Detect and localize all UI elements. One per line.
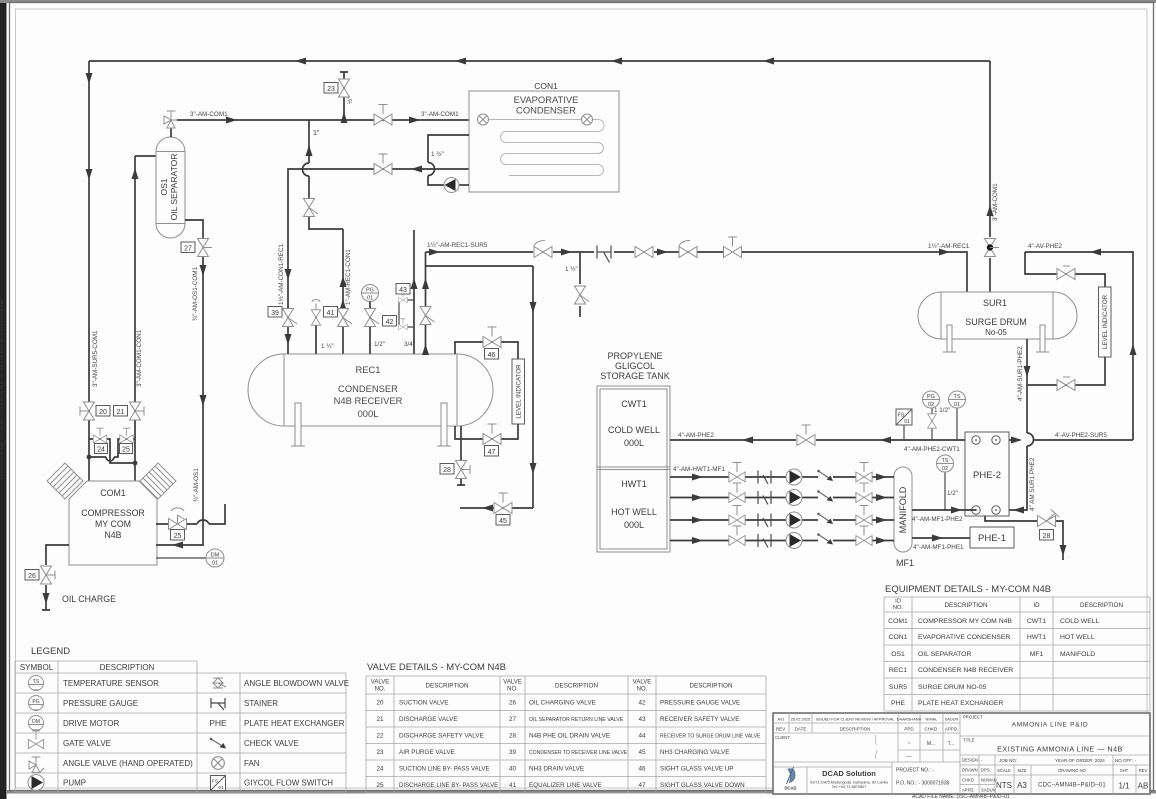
svg-text:No-05: No-05 bbox=[985, 328, 1007, 337]
svg-text:HOT WELL: HOT WELL bbox=[1060, 634, 1095, 641]
svg-text:STAINER: STAINER bbox=[244, 699, 278, 708]
wire: 4"-AM-SUR1-PHE2 drop x=1027 bbox=[1009, 339, 1034, 514]
svg-text:COMPRESSOR MY COM N4B: COMPRESSOR MY COM N4B bbox=[918, 618, 1012, 625]
compressor muffler left bbox=[47, 463, 83, 499]
svg-text:PROJECT NO.: -: PROJECT NO.: - bbox=[896, 768, 934, 774]
svg-text:44: 44 bbox=[638, 733, 646, 740]
svg-text:MF1: MF1 bbox=[896, 558, 914, 568]
svg-text:20: 20 bbox=[99, 409, 107, 416]
svg-text:24: 24 bbox=[97, 447, 105, 454]
condenser coil serpentine bbox=[489, 120, 604, 176]
svg-text:AIR PURGE VALVE: AIR PURGE VALVE bbox=[399, 749, 455, 756]
junction dot line24 bbox=[87, 455, 92, 460]
svg-text:N4B PHE OIL DRAIN VALVE: N4B PHE OIL DRAIN VALVE bbox=[529, 733, 610, 740]
svg-text:4"-AM-PHE2: 4"-AM-PHE2 bbox=[678, 432, 714, 439]
wire: OS1 discharge to CON1 y=120 bbox=[177, 117, 469, 124]
compressor muffler right bbox=[140, 463, 176, 499]
svg-text:1 ½": 1 ½" bbox=[321, 342, 334, 350]
svg-text:EVAPORATIVE: EVAPORATIVE bbox=[514, 94, 579, 105]
svg-text:LEGEND: LEGEND bbox=[31, 646, 70, 657]
svg-text:SCALE: SCALE bbox=[997, 768, 1011, 773]
svg-text:01: 01 bbox=[212, 561, 218, 567]
svg-text:AB: AB bbox=[1138, 782, 1149, 791]
svg-text:3"-AM-COM1: 3"-AM-COM1 bbox=[421, 111, 459, 118]
wire: 4"-AM-MF1-PHE2 y=510 bbox=[912, 507, 976, 514]
svg-text:NO.: NO. bbox=[893, 605, 904, 611]
OS1 oil separator vessel bbox=[156, 137, 185, 238]
valve 26 oil charge bbox=[41, 545, 70, 610]
wire: SUR1 sight loop lower bbox=[1027, 357, 1105, 385]
wire: 1.5" condenser loop left bbox=[428, 135, 469, 185]
svg-text:21: 21 bbox=[117, 409, 125, 416]
wire: 4"-AM-MF1-PHE1 y=538 bbox=[912, 535, 970, 542]
svg-text:DESIGN: DESIGN bbox=[962, 758, 978, 763]
svg-text:SURGE DRUM: SURGE DRUM bbox=[965, 317, 1027, 327]
level indicator REC1 bbox=[512, 359, 525, 424]
legend symbol DM bbox=[29, 716, 44, 731]
svg-text:41: 41 bbox=[509, 782, 517, 789]
check valve 2 on SUR5 line bbox=[679, 240, 697, 257]
valve on x=343 nozzle bbox=[338, 309, 353, 327]
wire: OS1 left nozzle to riser bbox=[135, 155, 156, 157]
pump 3 bbox=[786, 512, 802, 528]
svg-text:1½"-AM-REC1: 1½"-AM-REC1 bbox=[928, 242, 970, 250]
wire: pump line 1 y=477 bbox=[670, 474, 894, 481]
check valve pump line 2 bbox=[817, 490, 833, 501]
svg-text:PHE: PHE bbox=[891, 700, 905, 707]
svg-text:PROPYLENE: PROPYLENE bbox=[607, 351, 662, 361]
svg-text:OIL SEPARATOR: OIL SEPARATOR bbox=[918, 651, 971, 658]
svg-text:TITLE: TITLE bbox=[963, 738, 975, 743]
svg-text:OIL SEPARATOR RETURN LINE VALV: OIL SEPARATOR RETURN LINE VALVE bbox=[529, 717, 624, 723]
svg-text:4"-AM-MF1-PHE1: 4"-AM-MF1-PHE1 bbox=[913, 544, 964, 551]
gate valve pump line 4 bbox=[729, 526, 745, 545]
svg-text:REV.: REV. bbox=[776, 727, 786, 732]
numbox 26 bbox=[25, 570, 39, 581]
svg-text:SUCTION LINE BY- PASS VALVE: SUCTION LINE BY- PASS VALVE bbox=[399, 767, 489, 773]
svg-text:DCAD: DCAD bbox=[784, 786, 796, 791]
svg-text:25: 25 bbox=[376, 782, 384, 789]
svg-text:PRESSURE GAUGE VALVE: PRESSURE GAUGE VALVE bbox=[660, 700, 740, 707]
svg-text:91/71/1/A/5,Mudungoda, Gampaha: 91/71/1/A/5,Mudungoda, Gampaha, Sri Lank… bbox=[810, 781, 888, 785]
svg-text:40: 40 bbox=[509, 766, 517, 773]
svg-text:1"-AM-REC1-CON1: 1"-AM-REC1-CON1 bbox=[345, 249, 352, 305]
valve 23 air purge bbox=[339, 72, 350, 123]
svg-text:N4B RECEIVER: N4B RECEIVER bbox=[334, 395, 403, 406]
svg-text:39: 39 bbox=[509, 749, 517, 756]
wire: 1"-AM-REC1-CON1 riser x=343 bbox=[340, 229, 347, 354]
svg-text:HWT1: HWT1 bbox=[1027, 634, 1046, 641]
legend symbol angle blowdown bbox=[213, 678, 226, 688]
CON1 evaporative condenser box bbox=[469, 91, 619, 192]
PG-02 gauge with angle valve bbox=[923, 391, 940, 440]
hand valve on y=169 line bbox=[374, 154, 392, 175]
svg-text:SIZE: SIZE bbox=[1017, 768, 1027, 773]
svg-text:P.O. NO.: - 3000071938: P.O. NO.: - 3000071938 bbox=[896, 781, 949, 787]
svg-text:NH3 DRAIN VALVE: NH3 DRAIN VALVE bbox=[529, 766, 584, 773]
svg-text:DRAWN: DRAWN bbox=[962, 768, 978, 773]
svg-text:EQUALIZER LINE VALVE: EQUALIZER LINE VALVE bbox=[529, 782, 602, 789]
hand valve pump line 4 bbox=[856, 526, 872, 545]
svg-text:TS: TS bbox=[33, 679, 40, 685]
svg-text:COM1: COM1 bbox=[100, 488, 126, 498]
svg-text:PLATE HEAT EXCHANGER: PLATE HEAT EXCHANGER bbox=[918, 700, 1003, 707]
legend table grid bbox=[15, 661, 346, 792]
svg-text:46: 46 bbox=[488, 352, 496, 359]
svg-text:43: 43 bbox=[638, 716, 646, 723]
svg-text:3/4": 3/4" bbox=[404, 341, 415, 348]
svg-text:ISSUED FOR CLIENT REVIEW /: ISSUED FOR CLIENT REVIEW / APPROVAL bbox=[816, 717, 896, 722]
wire: top main suction header y=61 bbox=[89, 58, 990, 65]
svg-text:MANIFOLD: MANIFOLD bbox=[898, 486, 908, 533]
svg-text:DESCRIPTION: DESCRIPTION bbox=[1080, 602, 1123, 609]
svg-text:RECEIVER SAFETY VALVE: RECEIVER SAFETY VALVE bbox=[660, 716, 739, 723]
numbox 23 bbox=[324, 83, 338, 94]
svg-text:DISCHARGE LINE BY- PASS VALVE: DISCHARGE LINE BY- PASS VALVE bbox=[399, 783, 498, 789]
svg-text:—: — bbox=[34, 707, 39, 713]
check valve pump line 4 bbox=[817, 533, 833, 544]
right: bottom grid bbox=[960, 755, 1150, 794]
valve 28 PHE oil drain bbox=[985, 510, 1067, 561]
svg-text:CON1: CON1 bbox=[534, 81, 558, 91]
svg-text:DESCRIPTION: DESCRIPTION bbox=[840, 727, 871, 732]
wire: pump line 4 y=540.5 bbox=[670, 537, 894, 544]
hand valve on SUR5 line bbox=[724, 237, 742, 258]
wire: NH3 charging riser x=533 bbox=[530, 266, 537, 508]
svg-text:ID: ID bbox=[895, 599, 901, 605]
hand valve pump line 1 bbox=[856, 463, 872, 482]
svg-text:REC1: REC1 bbox=[889, 667, 907, 674]
fan right bbox=[582, 114, 593, 125]
svg-text:1/2": 1/2" bbox=[374, 341, 385, 348]
numbox 21 bbox=[114, 406, 128, 417]
svg-text:SADUN: SADUN bbox=[945, 717, 959, 722]
svg-text:CONDENSER TO RECEIVER LINE VAL: CONDENSER TO RECEIVER LINE VALVE bbox=[529, 750, 628, 756]
valve 39 condenser-to-receiver bbox=[283, 307, 298, 354]
svg-text:PLATE HEAT EXCHANGER: PLATE HEAT EXCHANGER bbox=[244, 719, 345, 728]
svg-text:HWT1: HWT1 bbox=[621, 479, 647, 489]
svg-text:1 ½": 1 ½" bbox=[431, 150, 444, 158]
numbox 43 bbox=[396, 284, 410, 295]
svg-text:43: 43 bbox=[399, 287, 407, 294]
equipment details grid bbox=[884, 597, 1150, 711]
svg-text:NO.: NO. bbox=[507, 687, 518, 693]
legend symbol fan bbox=[212, 757, 225, 770]
svg-text:PHE-1: PHE-1 bbox=[978, 533, 1006, 544]
svg-text:000L: 000L bbox=[624, 520, 644, 530]
valve 44 receiver to surge drum bbox=[420, 252, 435, 355]
svg-text:4"-AM-PHE2-CWT1: 4"-AM-PHE2-CWT1 bbox=[904, 446, 960, 453]
svg-text:TEMPERATURE SENSOR: TEMPERATURE SENSOR bbox=[63, 679, 159, 688]
svg-text:25: 25 bbox=[174, 533, 182, 540]
PHE-2 plate heat exchanger bbox=[965, 432, 1009, 516]
svg-text:NH3 CHARGING VALVE: NH3 CHARGING VALVE bbox=[660, 749, 729, 756]
svg-text:VALVE: VALVE bbox=[371, 680, 389, 686]
valve on x=309 equalizer bbox=[304, 199, 319, 217]
svg-text:4'-AV-PHE2-SUR5: 4'-AV-PHE2-SUR5 bbox=[1055, 432, 1107, 439]
svg-text:PG: PG bbox=[32, 699, 39, 705]
svg-text:01: 01 bbox=[954, 402, 960, 408]
svg-text:CHKD.: CHKD. bbox=[962, 778, 975, 783]
svg-text:DRAWING NO: DRAWING NO bbox=[1058, 768, 1086, 773]
storage tank box bbox=[597, 386, 670, 552]
svg-text:SHT: SHT bbox=[1120, 768, 1129, 773]
svg-text:MY COM: MY COM bbox=[95, 519, 131, 529]
svg-text:JOB NO:: JOB NO: bbox=[999, 758, 1017, 763]
svg-text:SADUN: SADUN bbox=[981, 788, 996, 793]
wire: 3"-AM-COM1 riser to SUR1 x=990 bbox=[987, 61, 994, 292]
valve 21 discharge valve bbox=[130, 401, 145, 422]
top gray bar bbox=[0, 0, 1156, 3]
svg-text:SIGHT GLASS VALVE UP: SIGHT GLASS VALVE UP bbox=[660, 766, 734, 773]
pump 1 bbox=[786, 469, 802, 485]
svg-text:CON1: CON1 bbox=[889, 634, 908, 641]
junction dot line25 bbox=[133, 461, 138, 466]
svg-text:SYMBOL: SYMBOL bbox=[20, 663, 54, 672]
svg-text:CONDENSER: CONDENSER bbox=[338, 383, 398, 394]
wire: risers continue to bypass bbox=[89, 422, 135, 481]
valve 43 receiver safety bypass bbox=[399, 230, 418, 354]
svg-text:ANGLE VALVE (HAND OPERATED): ANGLE VALVE (HAND OPERATED) bbox=[63, 759, 193, 768]
DM-01 drive motor bbox=[156, 549, 224, 567]
hand valve on y=120 line bbox=[374, 105, 392, 126]
svg-text:DESCRIPTION: DESCRIPTION bbox=[425, 683, 468, 690]
svg-text:1½"-AM-REC1-SUR5: 1½"-AM-REC1-SUR5 bbox=[427, 241, 488, 249]
svg-text:A01: A01 bbox=[778, 717, 785, 722]
wire: 4"-AM-PHE2-CWT1 return line y=440 bbox=[670, 437, 1133, 444]
svg-text:4"-AM-SUR1-PHE2: 4"-AM-SUR1-PHE2 bbox=[1017, 346, 1024, 401]
REC1 leg left bbox=[291, 403, 305, 446]
valve 42 pressure gauge valve bbox=[365, 302, 380, 355]
REC1 receiver vessel bbox=[248, 354, 493, 426]
hand valve on y=440 bbox=[797, 425, 815, 446]
svg-text:28: 28 bbox=[509, 733, 517, 740]
svg-text:27: 27 bbox=[509, 716, 517, 723]
valve 25 discharge by-pass bbox=[89, 428, 135, 461]
svg-text:DESCRIPTION: DESCRIPTION bbox=[555, 683, 598, 690]
legend symbol strainer bbox=[211, 698, 225, 710]
svg-text:3"-AM-COM1-CON1: 3"-AM-COM1-CON1 bbox=[136, 329, 143, 387]
svg-text:MANIFOLD: MANIFOLD bbox=[1060, 651, 1095, 658]
svg-text:01: 01 bbox=[367, 296, 373, 302]
svg-text:27: 27 bbox=[184, 245, 192, 252]
svg-text:FS: FS bbox=[898, 413, 905, 419]
PHE-1 box bbox=[970, 527, 1014, 548]
SUR1 surge drum vessel bbox=[918, 292, 1077, 339]
pump 4 bbox=[786, 533, 802, 549]
svg-text:SUR1: SUR1 bbox=[983, 298, 1007, 308]
svg-text:DESCRIPTION: DESCRIPTION bbox=[689, 683, 732, 690]
svg-text:46: 46 bbox=[638, 766, 646, 773]
svg-text:25: 25 bbox=[122, 447, 130, 454]
svg-text:4" AM SUR1 PHE2: 4" AM SUR1 PHE2 bbox=[1029, 457, 1036, 511]
legend symbol gate valve bbox=[28, 731, 43, 749]
svg-text:FAN: FAN bbox=[244, 759, 260, 768]
svg-text:DISCHARGE VALVE: DISCHARGE VALVE bbox=[399, 716, 458, 723]
svg-text:M...: M... bbox=[927, 741, 935, 747]
svg-text:23: 23 bbox=[327, 86, 335, 93]
svg-text:47: 47 bbox=[488, 449, 496, 456]
svg-text:COLD WELL: COLD WELL bbox=[608, 425, 660, 435]
pump 2 bbox=[786, 490, 802, 506]
check valve pump line 1 bbox=[817, 470, 833, 481]
svg-text:PPD: PPD bbox=[904, 727, 914, 732]
title block revision grid bbox=[773, 713, 960, 794]
valve 45 NH3 charging bbox=[460, 493, 533, 514]
wire: left riser 3"-AM-SUR5-COM1 x=89 bbox=[86, 61, 93, 401]
svg-text:DM: DM bbox=[211, 553, 220, 559]
COM1 compressor body bbox=[69, 481, 157, 565]
svg-text:3"-AM-COM1: 3"-AM-COM1 bbox=[190, 111, 228, 118]
svg-text:NTS: NTS bbox=[996, 781, 1012, 790]
svg-text:SIGHT GLASS VALVE DOWN: SIGHT GLASS VALVE DOWN bbox=[660, 782, 745, 789]
svg-text:CONDENSER: CONDENSER bbox=[516, 105, 576, 116]
wire: 1.5"-AM-REC1-SUR5 header y=253 bbox=[426, 249, 968, 293]
svg-text:TS: TS bbox=[941, 458, 948, 464]
svg-text:PG: PG bbox=[927, 394, 935, 400]
svg-text:OS1: OS1 bbox=[159, 178, 169, 195]
svg-text:OIL CHARGE: OIL CHARGE bbox=[62, 594, 116, 604]
TS-02 temp sensor bbox=[937, 455, 954, 510]
svg-text:DATE: DATE bbox=[795, 727, 807, 732]
svg-text:VALVE DETAILS - MY-COM N4B: VALVE DETAILS - MY-COM N4B bbox=[367, 662, 506, 673]
svg-text:TS: TS bbox=[953, 394, 960, 400]
svg-text:½": ½" bbox=[346, 97, 354, 105]
numbox 45 bbox=[496, 515, 510, 526]
legend symbol angle valve bbox=[29, 757, 44, 773]
svg-text:45: 45 bbox=[638, 749, 646, 756]
numbox 42 bbox=[383, 316, 397, 327]
svg-text:ACAD FILE NAME: DSC–AMN4B–: ACAD FILE NAME: DSC–AMN4B–P&ID–01 bbox=[912, 794, 1010, 799]
svg-text:SUCTION VALVE: SUCTION VALVE bbox=[399, 700, 448, 707]
svg-text:¾"-AM-OS1-COM1: ¾"-AM-OS1-COM1 bbox=[192, 266, 199, 321]
svg-text:OS1: OS1 bbox=[891, 651, 905, 658]
svg-text:SUR5: SUR5 bbox=[889, 684, 907, 691]
SUR1 leg left bbox=[943, 325, 956, 352]
pump on condenser loop (points left) bbox=[444, 178, 459, 193]
fan left bbox=[478, 114, 489, 125]
svg-text:PRESSURE GAUGE: PRESSURE GAUGE bbox=[63, 699, 138, 708]
svg-text:OIL CHARGING VALVE: OIL CHARGING VALVE bbox=[529, 700, 596, 707]
svg-text:LEVEL INDICATOR: LEVEL INDICATOR bbox=[516, 364, 523, 419]
svg-text:MF1: MF1 bbox=[1030, 651, 1044, 658]
svg-text:THIS DRAWING MAY NOT BE REPROD: THIS DRAWING MAY NOT BE REPRODUCED IN PA… bbox=[0, 299, 4, 480]
svg-text:COM1: COM1 bbox=[888, 618, 908, 625]
numbox 46 bbox=[485, 349, 499, 360]
svg-text:PROJECT: PROJECT bbox=[963, 715, 983, 720]
svg-text:000L: 000L bbox=[624, 438, 644, 448]
svg-text:42: 42 bbox=[386, 319, 394, 326]
wire: pump line 2 y=497.5 bbox=[670, 494, 894, 501]
svg-text:FS: FS bbox=[212, 779, 218, 785]
valve details grid bbox=[366, 676, 766, 793]
svg-text:—: — bbox=[907, 754, 912, 760]
FS-01 glycol flow switch bbox=[896, 409, 912, 440]
svg-text:25.02.2025: 25.02.2025 bbox=[791, 717, 810, 722]
svg-text:VALVE: VALVE bbox=[503, 680, 521, 686]
union strainer pump line 1 bbox=[758, 471, 771, 485]
svg-text:EVAPORATIVE CONDENSER: EVAPORATIVE CONDENSER bbox=[918, 634, 1010, 641]
svg-text:1 ½": 1 ½" bbox=[565, 265, 578, 273]
numbox 25b bbox=[171, 530, 185, 541]
hand valve pump line 2 bbox=[856, 483, 872, 502]
check valve pump line 3 bbox=[817, 513, 833, 524]
svg-text:CLIENT: CLIENT bbox=[775, 735, 790, 740]
svg-text:1 1/2": 1 1/2" bbox=[934, 407, 950, 414]
wire: condensate line y=169 CON1 to REC1 bbox=[285, 166, 470, 308]
bottom gray bar bbox=[6, 790, 1156, 794]
TS-01 temp sensor bbox=[949, 391, 966, 440]
svg-text:1½"-AM-CON1-REC1: 1½"-AM-CON1-REC1 bbox=[277, 243, 285, 305]
svg-text:Tel: +94 71 8870807: Tel: +94 71 8870807 bbox=[832, 785, 867, 789]
numbox 25 bbox=[120, 444, 133, 454]
svg-text:20: 20 bbox=[376, 700, 384, 707]
numbox 28b bbox=[1040, 530, 1054, 541]
svg-text:26: 26 bbox=[509, 700, 517, 707]
wire: riser 3"-AM-COM1-CON1 x=135 bbox=[132, 156, 139, 401]
svg-text:HOT WELL: HOT WELL bbox=[611, 507, 657, 517]
DCAD logo bbox=[784, 767, 796, 791]
svg-text:4"-AM-MF1-PHE2: 4"-AM-MF1-PHE2 bbox=[912, 516, 963, 523]
gate valve on SUR5 line bbox=[635, 247, 653, 258]
svg-text:CHECK VALVE: CHECK VALVE bbox=[244, 739, 299, 748]
gate valve pump line 2 bbox=[729, 483, 745, 502]
svg-text:DESCRIPTION: DESCRIPTION bbox=[100, 663, 155, 672]
hand valve pump line 3 bbox=[856, 506, 872, 525]
svg-text:NO OFF: -: NO OFF: - bbox=[1115, 758, 1136, 763]
valve on COM1 riser with dot bbox=[985, 239, 1000, 257]
svg-text:01: 01 bbox=[904, 419, 910, 425]
svg-text:26: 26 bbox=[28, 573, 36, 580]
svg-text:N4B: N4B bbox=[104, 530, 121, 540]
numbox 39 bbox=[268, 307, 282, 318]
svg-text:PG: PG bbox=[366, 288, 374, 294]
svg-text:1/2": 1/2" bbox=[947, 490, 958, 497]
svg-text:CWT1: CWT1 bbox=[621, 399, 647, 409]
valve on sight loop lower bbox=[1057, 377, 1075, 391]
svg-text:A3: A3 bbox=[1017, 781, 1027, 790]
svg-text:DM: DM bbox=[32, 719, 40, 725]
svg-text:¾"-AM-OS1: ¾"-AM-OS1 bbox=[193, 468, 200, 502]
svg-text:APPD.: APPD. bbox=[945, 727, 959, 732]
svg-text:DRIVE MOTOR: DRIVE MOTOR bbox=[63, 719, 120, 728]
sight glass bottom line valve 47 bbox=[455, 424, 518, 445]
svg-text:3"-AM-COM1: 3"-AM-COM1 bbox=[992, 183, 999, 221]
svg-text:COMPRESSOR: COMPRESSOR bbox=[81, 508, 145, 518]
svg-text:APPD.: APPD. bbox=[962, 788, 975, 793]
numbox 47 bbox=[485, 446, 499, 457]
REC1 leg right bbox=[437, 403, 451, 446]
legend symbol FS box bbox=[211, 776, 226, 792]
MANIFOLD vessel MF1 bbox=[894, 467, 912, 552]
svg-text:PHE-2: PHE-2 bbox=[973, 470, 1001, 481]
svg-text:ANGLE BLOWDOWN VALVE: ANGLE BLOWDOWN VALVE bbox=[244, 679, 349, 688]
legend symbol PG bbox=[29, 696, 44, 711]
wire: pump line 3 y=520 bbox=[670, 517, 894, 524]
svg-text:28: 28 bbox=[443, 467, 451, 474]
svg-text:NO.: NO. bbox=[375, 687, 386, 693]
svg-text:23: 23 bbox=[376, 749, 384, 756]
legend symbol pump bbox=[28, 775, 44, 791]
svg-text:STORAGE TANK: STORAGE TANK bbox=[600, 371, 670, 381]
numbox 24 bbox=[95, 444, 108, 454]
PG-01 pressure gauge bbox=[362, 285, 379, 302]
svg-text:24: 24 bbox=[376, 766, 384, 773]
level indicator SUR1 bbox=[1099, 287, 1112, 357]
wire: branch y=266 to charging riser bbox=[426, 265, 534, 267]
svg-text:RECEIVER TO SURGE DRUM LINE VA: RECEIVER TO SURGE DRUM LINE VALVE bbox=[660, 734, 761, 740]
SUR1 leg right bbox=[1036, 325, 1049, 352]
